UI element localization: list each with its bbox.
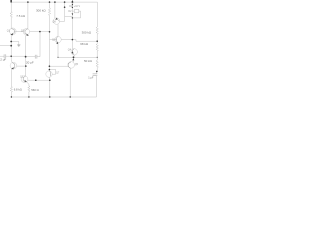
rail end left terminal stub [10,0,12,3]
wire C4 to bottom rail [96,76,98,97]
arrow Q4 [71,51,73,53]
wire left edge to cap C1 [0,55,11,57]
wire Q8 base right [60,20,65,22]
dot right node A [96,40,98,42]
dot feedback mid [35,79,37,81]
wire Q2 emitter down to N1 [25,35,27,56]
wire rail to Q8 emitter [54,2,56,18]
wire Q1 base to Q2 base [14,31,23,33]
wire Q5 collector down to rail [69,68,71,97]
resistor R10 [96,60,98,67]
capacitor C4 plates [93,74,98,76]
dot output left [57,57,58,58]
transistor Q6 circle [10,62,17,69]
transistor Q3 base bar [57,36,59,42]
wire bias right with jog [61,40,97,42]
wire Q6 base right to dot [17,65,26,67]
transistor Q5 circle [68,62,75,69]
wire Q3 base left [50,39,57,41]
svg-text:560 Ω: 560 Ω [31,88,39,92]
dot bias node [72,39,74,41]
rail dot x54.9 [54,1,56,3]
arrow Q8 up [56,18,58,20]
svg-text:+10 V: +10 V [74,5,81,8]
wire link 64.6-72.4 [65,16,73,18]
transistor Q7 base bar [49,71,50,76]
bottom rail joint x50 [49,96,50,97]
wire Q4 emitter to output dot [73,55,76,57]
wire Q3 emitter down [57,43,59,57]
wire R8 to node A [96,35,98,44]
transistor Q4 circle [71,49,77,55]
dot output mid [73,56,75,58]
wire Q7 emitter to rail [49,77,51,97]
wire C2 up to base node [39,32,41,57]
wire R6 to bottom rail [10,92,12,97]
wire rail to Q2 collector [27,2,29,29]
transistor Q1 base bar [11,28,14,35]
wire dot1 to dot2 [10,42,12,46]
wire Q2 base node right [30,31,50,33]
dot feedback right [49,79,51,81]
wire output line [58,56,97,58]
svg-text:Q4: Q4 [68,48,72,51]
wire input node down to Q6 [11,56,12,62]
diode D1 triangle [72,4,74,6]
svg-text:7.5 kΩ: 7.5 kΩ [16,14,26,18]
wire N1 to cap C2 [26,56,40,58]
svg-text:300 kΩ: 300 kΩ [82,31,92,35]
svg-text:Q1: Q1 [7,29,11,32]
wire dot2 down to input node [10,46,12,57]
arrow Q7b [25,80,27,82]
resistor R9 [96,44,98,52]
node dot2 [10,45,12,47]
transistor Q1 circle [10,28,17,35]
wire box stubs and loop [72,11,80,18]
wire Q7b collector right [28,79,50,81]
resistor R3 box [74,10,79,13]
dot right output [97,57,98,58]
rail dot x64.6 [64,1,66,3]
wire D string x72.4 [71,2,73,50]
node Q6 base [25,65,27,67]
base node dot [39,31,41,33]
wire output node down to R10 [96,57,98,60]
dot on diode line [64,6,66,8]
arrow Q3 [56,42,58,44]
transistor Q7 circle [46,71,52,77]
arrow Q6 [11,67,13,69]
wire input node to N1 [11,55,25,57]
wire Q7 base loop [49,70,55,75]
arrow Q5 up-left [72,58,74,60]
node dot1 [10,41,12,43]
wire Q8 collector down to Q3 [57,24,59,36]
wire rail to R1 [10,2,12,11]
wire Q5 emitter up [72,57,74,62]
wire R10 to cap node [96,68,98,72]
node N1 [25,56,27,58]
wire rail to R2 [49,2,51,8]
transistor Q3 circle [55,36,61,42]
emitter arrows [10,18,74,82]
wire input A to left edge [0,45,11,47]
capacitor C1 plates [4,54,6,58]
bottom rail [11,96,96,98]
bottom rail joint x70 [70,96,71,97]
rail dot x28 [27,1,29,3]
wire R9 to output node [96,51,98,57]
transistor Q4 base bar [73,49,75,56]
resistor R7 560 [28,86,30,92]
wire dot to Q7b top [25,66,27,76]
dot Q5 base junction [49,65,51,67]
wire right column top [96,2,98,27]
resistor R8 [96,27,98,35]
resistor R2 300k [48,8,50,15]
dot under D1 [72,7,73,8]
resistor R6 6.8k [10,87,12,93]
bottom rail joint x29 [28,96,29,97]
transistor Q7b base bar [23,76,26,81]
transistor Q2 base bar [25,29,28,35]
svg-text:6.8 kΩ: 6.8 kΩ [14,87,22,91]
bottom rail joint x11 [11,96,12,97]
arrow Q2 [27,34,29,36]
wire R2 down through nodes to Q7 [49,16,51,71]
svg-text:20 μF: 20 μF [26,60,34,64]
wire Q5 base from left [49,65,68,67]
transistor Q7b circle [21,76,28,83]
capacitor C2 plates [35,55,37,59]
wire dot1 to ground stub [11,42,19,45]
svg-text:2 μF: 2 μF [0,57,6,61]
node input dot3 [10,55,12,57]
dot Q7 collector node [49,69,51,71]
VCC arrow terminal [71,0,73,2]
wire diode column x64.6 [64,2,66,21]
transistor Q8 base bar [55,19,59,21]
ground symbol [17,45,20,47]
svg-text:50 kΩ: 50 kΩ [84,59,93,63]
wire R7 to bottom rail [28,92,30,97]
dot at 300k bottom [49,31,51,33]
labels [0,5,94,92]
dot right cap node [96,71,98,73]
svg-text:68 kΩ: 68 kΩ [80,42,89,46]
wire cap node stub [96,71,98,73]
wire Q6 emitter down [10,69,13,87]
resistor R1 7.5k [10,12,12,18]
transistor Q2 circle [23,29,29,35]
diode D2 triangle [72,13,74,15]
svg-text:1 μF: 1 μF [88,77,94,80]
junction dots and arrows [10,0,98,98]
transistor Q8 circle [53,18,59,24]
dot loop bottom [72,17,73,18]
transistor Q5 base bar [68,62,71,68]
top rail [11,1,97,3]
transistor Q6 base bar [12,63,15,70]
wire R1 to Q1 collector [10,18,12,28]
wire Q7b emitter slant to R7 [26,82,29,86]
wire N1 down to Q7b [25,57,27,66]
rail dot x49.5 [49,1,51,3]
arrow Q1 [10,33,13,35]
wire Q1 emitter down [10,35,12,42]
svg-text:300 kΩ: 300 kΩ [36,8,46,12]
